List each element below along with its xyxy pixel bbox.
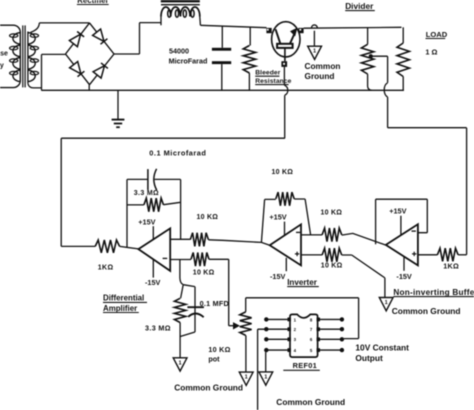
pot wiper arrow bbox=[229, 325, 234, 327]
wire U2 + input to common ground bbox=[342, 255, 385, 298]
svg-text:10 KΩ: 10 KΩ bbox=[272, 169, 294, 176]
node: rail from U1 inverting input to RC bbox=[180, 260, 183, 285]
U1 -15V supply bbox=[152, 259, 154, 278]
U1 non-inverting input wire bbox=[170, 259, 191, 261]
resistor LOAD 1 ohm bbox=[402, 27, 404, 43]
resistor 3.3M (feedback) bbox=[127, 204, 144, 206]
svg-text:0.1 Microfarad: 0.1 Microfarad bbox=[149, 148, 206, 157]
ground (common) below pot bbox=[239, 372, 253, 385]
U1 feedback right rail bbox=[180, 179, 182, 239]
U1 feedback left rail bbox=[126, 179, 128, 248]
diode D2 (top->right edge) bbox=[93, 29, 104, 41]
wire inductor to transistor emitter bbox=[200, 25, 266, 27]
svg-text:MicroFarad: MicroFarad bbox=[169, 56, 208, 65]
ground (common) REF01 bbox=[259, 372, 273, 385]
svg-text:pot: pot bbox=[208, 355, 220, 364]
wire 1K to right edge rail bbox=[458, 254, 467, 256]
resistor 1K (U3 input) bbox=[437, 248, 458, 261]
svg-text:0.1 MFD: 0.1 MFD bbox=[200, 299, 229, 308]
wire Q1 base to diff-amp output (left loop) bbox=[61, 138, 285, 246]
svg-text:+15V: +15V bbox=[138, 218, 155, 227]
U2 feedback resistor 10K bbox=[261, 199, 275, 242]
wire secondary-bottom to bridge left corner bbox=[28, 54, 66, 90]
svg-text:10 KΩ: 10 KΩ bbox=[321, 210, 343, 217]
resistor 10K (U1 top input) bbox=[190, 233, 208, 247]
svg-text:Non-inverting Buffer: Non-inverting Buffer bbox=[393, 288, 474, 297]
svg-text:ply: ply bbox=[0, 63, 4, 70]
op-amp U2 inverter bbox=[270, 224, 301, 265]
svg-text:+15V: +15V bbox=[269, 212, 286, 221]
ground (common) below RC bbox=[173, 358, 187, 371]
svg-text:1: 1 bbox=[245, 375, 248, 381]
wire bridge right corner to inductor bbox=[114, 23, 161, 54]
svg-text:Common Ground: Common Ground bbox=[392, 306, 461, 316]
rectifier bridge diamond bbox=[66, 23, 115, 85]
svg-text:+15V: +15V bbox=[389, 206, 406, 215]
negative rail (bottom of top section) bbox=[41, 89, 404, 91]
svg-text:54000: 54000 bbox=[169, 47, 189, 56]
wire inverter output to U1 top input bbox=[208, 240, 269, 245]
svg-text:10V Constant: 10V Constant bbox=[355, 343, 409, 353]
wire bridge bottom corner to rail bbox=[88, 85, 90, 91]
svg-text:Ground: Ground bbox=[305, 71, 335, 81]
svg-text:1: 1 bbox=[313, 49, 316, 55]
wire Q1 collector to divider/load bbox=[304, 26, 402, 29]
wire pot top to REF01 pin6 bbox=[246, 298, 359, 339]
svg-text:Inverter: Inverter bbox=[287, 278, 318, 287]
svg-text:Common Ground: Common Ground bbox=[276, 397, 345, 407]
wire Q1 base down with hop over ground rail bbox=[284, 67, 287, 138]
wire buffer output to U2 top input bbox=[342, 233, 386, 245]
U1 inverting input wire bbox=[170, 238, 190, 240]
svg-text:-15V: -15V bbox=[145, 278, 161, 287]
U2 -15V supply bbox=[285, 258, 287, 271]
svg-text:Common: Common bbox=[305, 61, 341, 71]
resistor 10K (U2 bottom input) bbox=[322, 248, 342, 262]
U3 + input wire bbox=[418, 254, 438, 256]
ground (common) below buffer bbox=[379, 298, 393, 311]
svg-text:10 KΩ: 10 KΩ bbox=[208, 345, 230, 354]
svg-text:10 KΩ: 10 KΩ bbox=[321, 263, 343, 270]
svg-text:1KΩ: 1KΩ bbox=[98, 265, 114, 272]
diode D3 (left->bottom edge) bbox=[70, 62, 81, 74]
capacitor 0.1 MFD bbox=[183, 285, 195, 332]
svg-text:Differential: Differential bbox=[103, 294, 144, 303]
svg-text:-15V: -15V bbox=[270, 272, 286, 281]
op-amp U3 non-inverting buffer bbox=[386, 224, 418, 265]
svg-text:1: 1 bbox=[385, 300, 388, 306]
svg-text:Amplifier: Amplifier bbox=[103, 304, 137, 313]
inductor L1 (choke) bbox=[161, 0, 200, 2]
U3 -15V supply bbox=[403, 257, 405, 271]
transistor Q1 (pass transistor) bbox=[272, 22, 300, 57]
capacitor 0.1 Microfarad (feedback) bbox=[127, 178, 148, 180]
op-amp U1 differential amplifier bbox=[138, 228, 170, 271]
wire U1 bottom input to pot wiper bbox=[209, 259, 229, 325]
U3 unity feedback loop bbox=[376, 199, 428, 244]
transistor Q1 terminal pads bbox=[266, 28, 271, 33]
resistor 10K (U1 bottom input) bbox=[191, 253, 209, 267]
ground (common) top section bbox=[308, 46, 322, 59]
transformer T1 secondary winding bbox=[27, 32, 29, 84]
resistor bleeder bbox=[249, 28, 251, 46]
potentiometer 10K pot bbox=[245, 298, 247, 312]
svg-text:10 KΩ: 10 KΩ bbox=[197, 214, 219, 221]
svg-text:ase: ase bbox=[0, 51, 8, 58]
resistor 10K (U2 top input) bbox=[322, 228, 342, 242]
svg-text:Output: Output bbox=[355, 353, 383, 363]
diode D4 (bottom->right edge) bbox=[93, 66, 104, 78]
wire divider tap to buffer input (with hop, down right side) bbox=[372, 56, 466, 255]
svg-text:3.3 MΩ: 3.3 MΩ bbox=[145, 323, 171, 332]
svg-text:1: 1 bbox=[179, 360, 182, 366]
divider tap junction dot bbox=[369, 54, 373, 58]
diode D1 (left->top edge) bbox=[69, 34, 80, 47]
transformer T1 primary winding bbox=[13, 33, 20, 45]
resistor 3.3M (to ground) bbox=[181, 285, 184, 299]
wire RC to ground bbox=[179, 337, 181, 358]
svg-text:1 Ω: 1 Ω bbox=[425, 47, 437, 56]
capacitor C1 54000 MicroFarad bbox=[221, 26, 223, 48]
svg-text:-15V: -15V bbox=[396, 272, 412, 281]
resistor R 1K (diff amp output) bbox=[95, 240, 119, 253]
svg-text:10 KΩ: 10 KΩ bbox=[193, 270, 215, 277]
common ground pickoff bump bbox=[311, 25, 317, 28]
svg-text:3.3 MΩ: 3.3 MΩ bbox=[134, 190, 159, 197]
wire secondary-top to bridge top corner bbox=[31, 23, 90, 33]
U2 inverting input wire bbox=[301, 234, 322, 236]
earth ground symbol bbox=[117, 90, 119, 119]
svg-text:1KΩ: 1KΩ bbox=[443, 262, 459, 271]
AC supply box (clipped at left edge) bbox=[0, 25, 20, 87]
svg-text:REF01: REF01 bbox=[293, 361, 318, 370]
U2 non-inverting input wire bbox=[301, 254, 322, 256]
svg-text:Bleeder: Bleeder bbox=[255, 70, 281, 77]
svg-text:Common Ground: Common Ground bbox=[174, 382, 243, 392]
IC REF01 voltage reference bbox=[290, 314, 318, 357]
svg-text:1: 1 bbox=[264, 374, 267, 380]
svg-text:LOAD: LOAD bbox=[426, 30, 448, 39]
svg-text:Resistance: Resistance bbox=[255, 78, 291, 85]
wire REF01 pin4 to ground bbox=[265, 352, 267, 372]
resistor divider (tapped) bbox=[367, 28, 369, 45]
wire REF01 pin2 to bottom edge bbox=[258, 329, 267, 410]
svg-text:Divider: Divider bbox=[345, 1, 374, 11]
transformer core bbox=[22, 25, 24, 87]
